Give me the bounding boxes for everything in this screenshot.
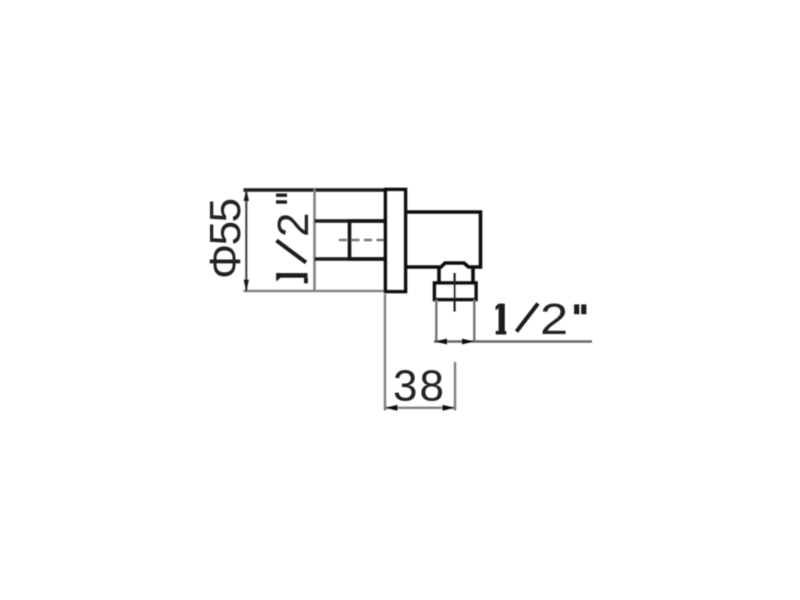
label 1/2 inch vertical: slash: [277, 241, 307, 263]
label 1/2 inch horizontal: digit 1 (drawn as stem+flag+foot): [496, 304, 507, 335]
dimension line 38: [385, 407, 455, 409]
label phi55: [201, 199, 250, 279]
outlet vertical centerline: [454, 273, 456, 312]
svg-text:2: 2: [540, 295, 568, 344]
label 1/2 inch horizontal: digit 2: [540, 295, 568, 344]
arrowhead 38 right: [443, 405, 456, 411]
extension line 38 right: [454, 362, 456, 411]
label 1/2 inch horizontal: slash: [517, 304, 539, 332]
flange plate: [386, 190, 406, 292]
wall body rectangle left edge: [313, 189, 315, 291]
wall body rectangle bottom edge / dim extension line bottom: [244, 290, 387, 292]
outlet pipe right side: [473, 300, 475, 342]
label 1/2 inch vertical: digit 1 (rotated, drawn as bar+flag+foot): [276, 273, 308, 283]
label 1/2 inch vertical: double prime: [276, 194, 287, 204]
elbow body outline with dome: [406, 212, 481, 267]
arrowhead phi55 bottom: [244, 280, 249, 292]
outlet pipe left side: [435, 300, 437, 342]
svg-text:Φ55: Φ55: [201, 199, 250, 279]
label 1/2 inch vertical: digit 2: [269, 213, 318, 237]
dashed centerline of inlet: [339, 239, 391, 242]
arrowhead 38 left: [385, 405, 398, 411]
dimension line phi55 vertical: [245, 190, 247, 292]
wall body rectangle top edge / dim extension line top: [244, 188, 387, 191]
svg-text:38: 38: [393, 361, 446, 410]
label 38: [393, 361, 446, 410]
dimension line 1/2 inch horizontal at pipe bottom: [434, 340, 592, 342]
svg-text:2: 2: [269, 213, 318, 237]
inlet channel lower line: [315, 257, 387, 260]
arrowhead pipe right: [462, 339, 474, 345]
arrowhead phi55 top: [244, 190, 249, 202]
outlet neck left side: [437, 267, 441, 284]
inlet channel upper line: [315, 219, 387, 222]
outlet neck right side: [471, 267, 475, 284]
arrowhead pipe left: [435, 339, 447, 345]
cartridge thick rectangle: [350, 221, 387, 259]
outlet nut: [435, 283, 477, 300]
label 1/2 inch horizontal: double prime: [574, 304, 586, 314]
extension line 38 left: [384, 294, 386, 411]
